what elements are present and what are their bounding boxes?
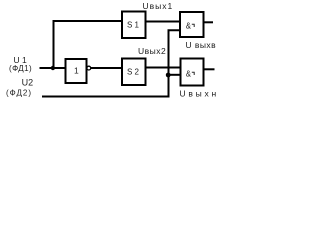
block S2 <box>122 59 146 86</box>
node junction dot U1 <box>51 66 55 70</box>
wire inverter output to S2 <box>91 67 122 69</box>
inverter U3 box <box>66 59 87 83</box>
svg-text:Uвых1: Uвых1 <box>143 1 174 11</box>
svg-text:S 2: S 2 <box>127 68 140 77</box>
svg-text:(ФД2): (ФД2) <box>6 88 32 97</box>
wire U1 branch up to S1 <box>54 21 123 68</box>
svg-text:&: & <box>186 22 192 31</box>
svg-text:S 1: S 1 <box>127 20 140 29</box>
svg-text:(ФД1): (ФД1) <box>9 64 32 73</box>
node junction dot U2 <box>166 73 171 78</box>
AND gate U4 (top) box <box>180 12 204 37</box>
svg-text:U2: U2 <box>22 78 34 88</box>
wire AND2 output <box>203 68 215 70</box>
block S1 <box>122 12 146 39</box>
wire U2 net: up branch to AND1 second input <box>42 30 180 96</box>
AND gate U5 (bottom) box <box>181 59 204 86</box>
svg-text:Uвыхн: Uвыхн <box>180 89 219 99</box>
wire U1 input horizontal <box>40 67 66 69</box>
wire S2 output to AND2 <box>146 67 181 69</box>
wire S1 output to AND1 <box>146 21 181 23</box>
svg-text:1: 1 <box>74 66 79 76</box>
wire AND2 second input <box>168 74 181 76</box>
inverter output bubble <box>87 66 91 70</box>
svg-text:U выхв: U выхв <box>186 40 217 50</box>
svg-text:Uвых2: Uвых2 <box>138 46 166 56</box>
wire AND1 output <box>203 21 213 23</box>
svg-text:&: & <box>186 70 192 79</box>
